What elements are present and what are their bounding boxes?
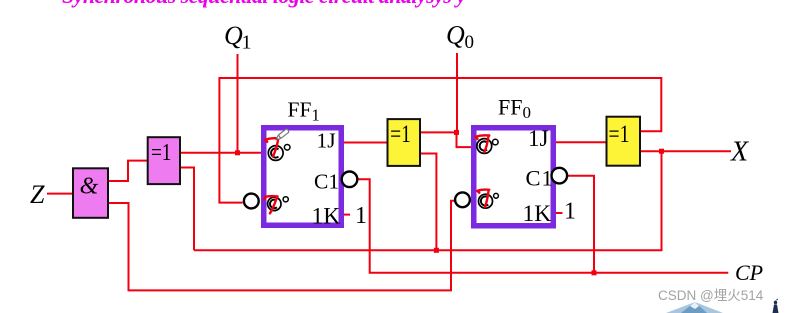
svg-text:1K: 1K xyxy=(523,201,552,227)
svg-text:C1: C1 xyxy=(314,170,339,194)
wire XOR G2 output to Q0 node xyxy=(421,131,457,133)
wire XOR G1 output to FF1 left input xyxy=(181,152,262,154)
AND gate U1 (&) xyxy=(73,168,108,218)
flip-flop FF0 box xyxy=(474,128,554,226)
XOR gate G3 (=1) xyxy=(607,117,641,166)
wire XOR G3 output to X label xyxy=(640,150,731,152)
svg-text:1J: 1J xyxy=(317,129,336,153)
red annotation mark on FF0 bottom C xyxy=(477,190,489,208)
watermark mountain graphic xyxy=(666,302,723,313)
wire FF1 C1 bubble to CP rail xyxy=(358,179,729,272)
node junction on CP rail xyxy=(592,270,597,275)
svg-text:X: X xyxy=(730,137,749,168)
svg-text:1J: 1J xyxy=(528,126,549,151)
svg-text:1: 1 xyxy=(564,199,576,225)
wire XOR G2 lower input down to feedback rail xyxy=(421,154,436,251)
flip-flop FF1 box xyxy=(264,128,342,226)
clock symbol C-deg inside FF1 bottom xyxy=(268,197,289,211)
bubble on FF0 Qbar output xyxy=(455,192,470,207)
watermark figure icon xyxy=(773,299,779,313)
svg-text:Synchronous sequential logic c: Synchronous sequential logic circuit ana… xyxy=(62,0,466,8)
pencil cursor icon xyxy=(275,129,290,142)
bubble on FF1 C1 input xyxy=(342,172,358,188)
svg-text:C1: C1 xyxy=(526,166,554,191)
wire FF1 1K stub to constant 1 xyxy=(343,214,350,216)
wire FF0 C1 bubble down to CP rail xyxy=(567,176,594,273)
node junction on X feedback rail xyxy=(434,248,439,253)
red annotation mark on FF1 bottom C xyxy=(264,196,277,213)
node junction on G1 output (Q1 join) xyxy=(235,150,240,155)
svg-text:&: & xyxy=(80,174,99,200)
clock symbol C-deg inside FF1 top xyxy=(268,145,290,161)
wire FF0 1K stub to constant 1 xyxy=(556,212,563,214)
red annotation mark on FF1 top C xyxy=(265,138,279,156)
svg-text:Q: Q xyxy=(446,21,465,50)
bubble on FF1 Qbar output xyxy=(244,194,259,209)
node junction on G2 output (Q0 join) xyxy=(454,130,459,135)
svg-text:Q: Q xyxy=(224,21,243,50)
clock symbol C-deg inside FF0 bottom xyxy=(479,193,499,208)
XOR gate G1 (=1) xyxy=(148,137,180,184)
svg-text:=1: =1 xyxy=(609,121,630,148)
svg-text:CP: CP xyxy=(735,260,763,285)
wire FF0 1J pin to XOR G3 left input xyxy=(556,141,608,143)
XOR gate G2 (=1) xyxy=(388,119,421,166)
wire FF1 1J pin to XOR G2 left input xyxy=(343,142,388,144)
wire X feedback rail to X output node xyxy=(194,151,662,250)
svg-text:1K: 1K xyxy=(312,204,341,230)
svg-text:CSDN @埋火514: CSDN @埋火514 xyxy=(658,288,764,303)
wire Q0 vertical from label through node into FF0 left input xyxy=(457,53,474,147)
svg-text:1: 1 xyxy=(242,32,252,54)
wire from AND gate lower pin to bottom rail and up to FF0 Qbar bubble xyxy=(109,201,454,291)
wire FF1 Qbar bubble up and across top to XOR G3 right input xyxy=(219,78,661,203)
svg-text:FF1: FF1 xyxy=(288,98,320,125)
svg-text:0: 0 xyxy=(465,32,475,53)
wire from AND gate output to XOR G1 upper input xyxy=(109,161,148,181)
node junction on X output line xyxy=(659,149,664,154)
svg-text:1: 1 xyxy=(355,203,367,229)
clock symbol C-deg inside FF0 top xyxy=(477,139,498,154)
wire Z input lead xyxy=(47,193,72,195)
svg-text:=1: =1 xyxy=(390,121,411,148)
red annotation mark on FF0 top C xyxy=(475,135,489,152)
svg-text:FF0: FF0 xyxy=(498,95,531,123)
wire XOR G1 lower input down to X feedback rail xyxy=(181,168,194,251)
bubble on FF0 C1 input xyxy=(552,168,568,184)
wire Q1 vertical from label to node on G1 output line xyxy=(237,54,239,153)
svg-text:Z: Z xyxy=(30,180,45,209)
svg-text:=1: =1 xyxy=(151,140,172,166)
